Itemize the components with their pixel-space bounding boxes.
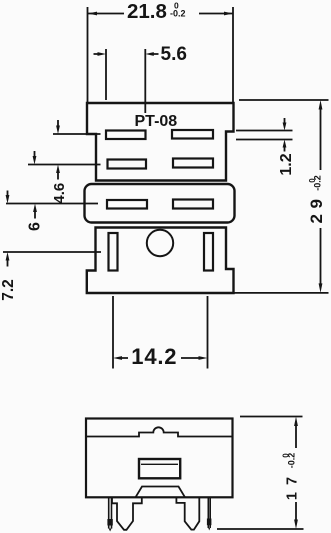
svg-text:17: 17 — [285, 470, 301, 500]
svg-text:1.2: 1.2 — [278, 153, 295, 175]
svg-text:5.6: 5.6 — [161, 44, 187, 65]
svg-text:29: 29 — [307, 194, 326, 224]
svg-text:7.2: 7.2 — [0, 279, 17, 301]
svg-text:PT-08: PT-08 — [135, 113, 178, 130]
svg-text:21.8: 21.8 — [127, 0, 167, 23]
svg-text:-0.2: -0.2 — [313, 175, 323, 191]
svg-text:14.2: 14.2 — [131, 344, 177, 369]
svg-text:-0.2: -0.2 — [287, 453, 297, 469]
svg-text:4.6: 4.6 — [51, 183, 68, 204]
svg-text:6: 6 — [27, 222, 44, 231]
svg-text:-0.2: -0.2 — [170, 9, 186, 19]
